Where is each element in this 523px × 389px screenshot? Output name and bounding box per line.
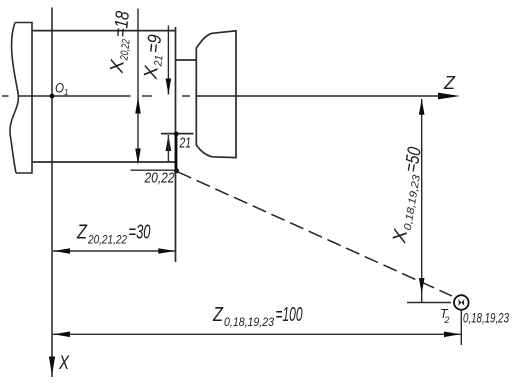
dimension X21=9 [140, 26, 171, 163]
svg-text:=18: =18 [110, 10, 134, 38]
svg-text:21: 21 [179, 135, 191, 152]
svg-text:21: 21 [152, 55, 165, 68]
svg-text:1: 1 [64, 88, 68, 97]
svg-text:=30: =30 [129, 222, 151, 244]
axis X [49, 8, 70, 378]
centre line (dash-dot) [2, 95, 190, 97]
dashed rapid-traverse line [178, 172, 452, 296]
label T2 [440, 306, 450, 325]
svg-text:20,22: 20,22 [118, 39, 132, 62]
svg-text:X: X [58, 353, 70, 374]
svg-text:Z: Z [212, 304, 223, 326]
tailstock centre body [196, 31, 236, 158]
svg-text:20,21,22: 20,21,22 [87, 235, 127, 247]
svg-text:0,18,19,23: 0,18,19,23 [463, 310, 509, 326]
svg-text:Z: Z [76, 222, 87, 244]
point 21 [174, 132, 191, 152]
dimension X0,18,19,23=50 [389, 99, 451, 303]
tool change point symbol [454, 295, 469, 345]
svg-text:=50: =50 [401, 145, 426, 173]
svg-text:20,22: 20,22 [144, 171, 175, 187]
origin O1 [50, 80, 69, 99]
point 20,22 [131, 168, 179, 186]
svg-text:2: 2 [444, 315, 450, 325]
chuck jaw (broken bar end) [10, 23, 32, 174]
dimension Z20,21,22=30 [53, 222, 175, 254]
svg-text:=100: =100 [276, 304, 303, 326]
axis Z [196, 73, 460, 99]
dimension X20,22=18 [106, 9, 140, 165]
svg-text:O: O [55, 80, 64, 96]
dimension Z0,18,19,23=100 [53, 304, 461, 337]
svg-text:0,18,19,23: 0,18,19,23 [402, 174, 423, 231]
svg-text:0,18,19,23: 0,18,19,23 [224, 317, 275, 329]
workpiece shaft outline [32, 27, 196, 262]
machined contour (bold) [175, 134, 178, 171]
svg-text:Z: Z [443, 73, 456, 93]
svg-text:=9: =9 [143, 33, 166, 54]
